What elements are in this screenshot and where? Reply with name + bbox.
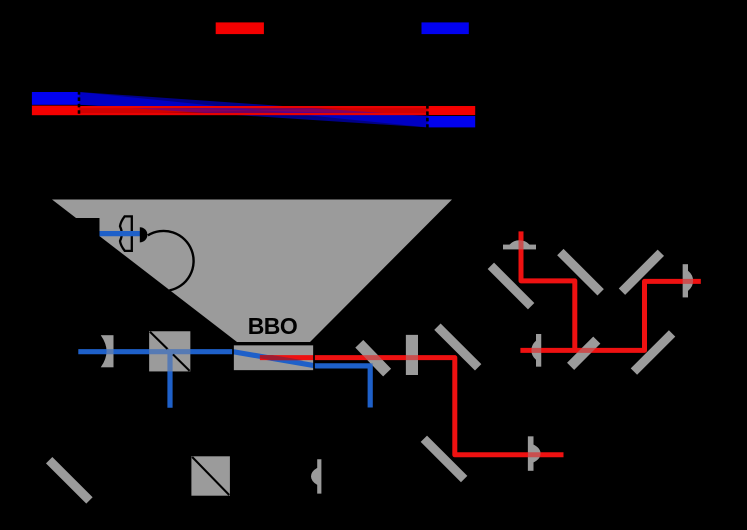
svg-text:BBO: BBO	[248, 313, 298, 339]
